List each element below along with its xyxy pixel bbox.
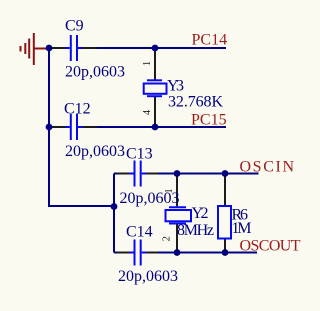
svg-text:32.768K: 32.768K	[168, 94, 223, 111]
svg-text:C12: C12	[64, 101, 91, 118]
svg-text:OSCOUT: OSCOUT	[240, 238, 301, 255]
svg-text:C14: C14	[126, 224, 153, 241]
svg-text:20p,0603: 20p,0603	[118, 268, 178, 285]
svg-text:8MHz: 8MHz	[177, 222, 214, 239]
svg-text:2: 2	[162, 236, 173, 241]
svg-text:PC14: PC14	[192, 32, 228, 49]
svg-text:PC15: PC15	[191, 112, 227, 129]
svg-text:OSCIN: OSCIN	[240, 159, 295, 176]
svg-text:1M: 1M	[232, 220, 252, 237]
svg-text:C9: C9	[65, 18, 84, 35]
svg-text:4: 4	[142, 109, 153, 115]
svg-text:1: 1	[164, 188, 175, 193]
svg-text:1: 1	[142, 61, 153, 66]
svg-text:20p,0603: 20p,0603	[65, 143, 125, 160]
svg-text:20p,0603: 20p,0603	[65, 64, 125, 81]
svg-text:C13: C13	[126, 146, 153, 163]
svg-text:Y2: Y2	[192, 205, 209, 222]
svg-text:Y3: Y3	[167, 78, 184, 95]
